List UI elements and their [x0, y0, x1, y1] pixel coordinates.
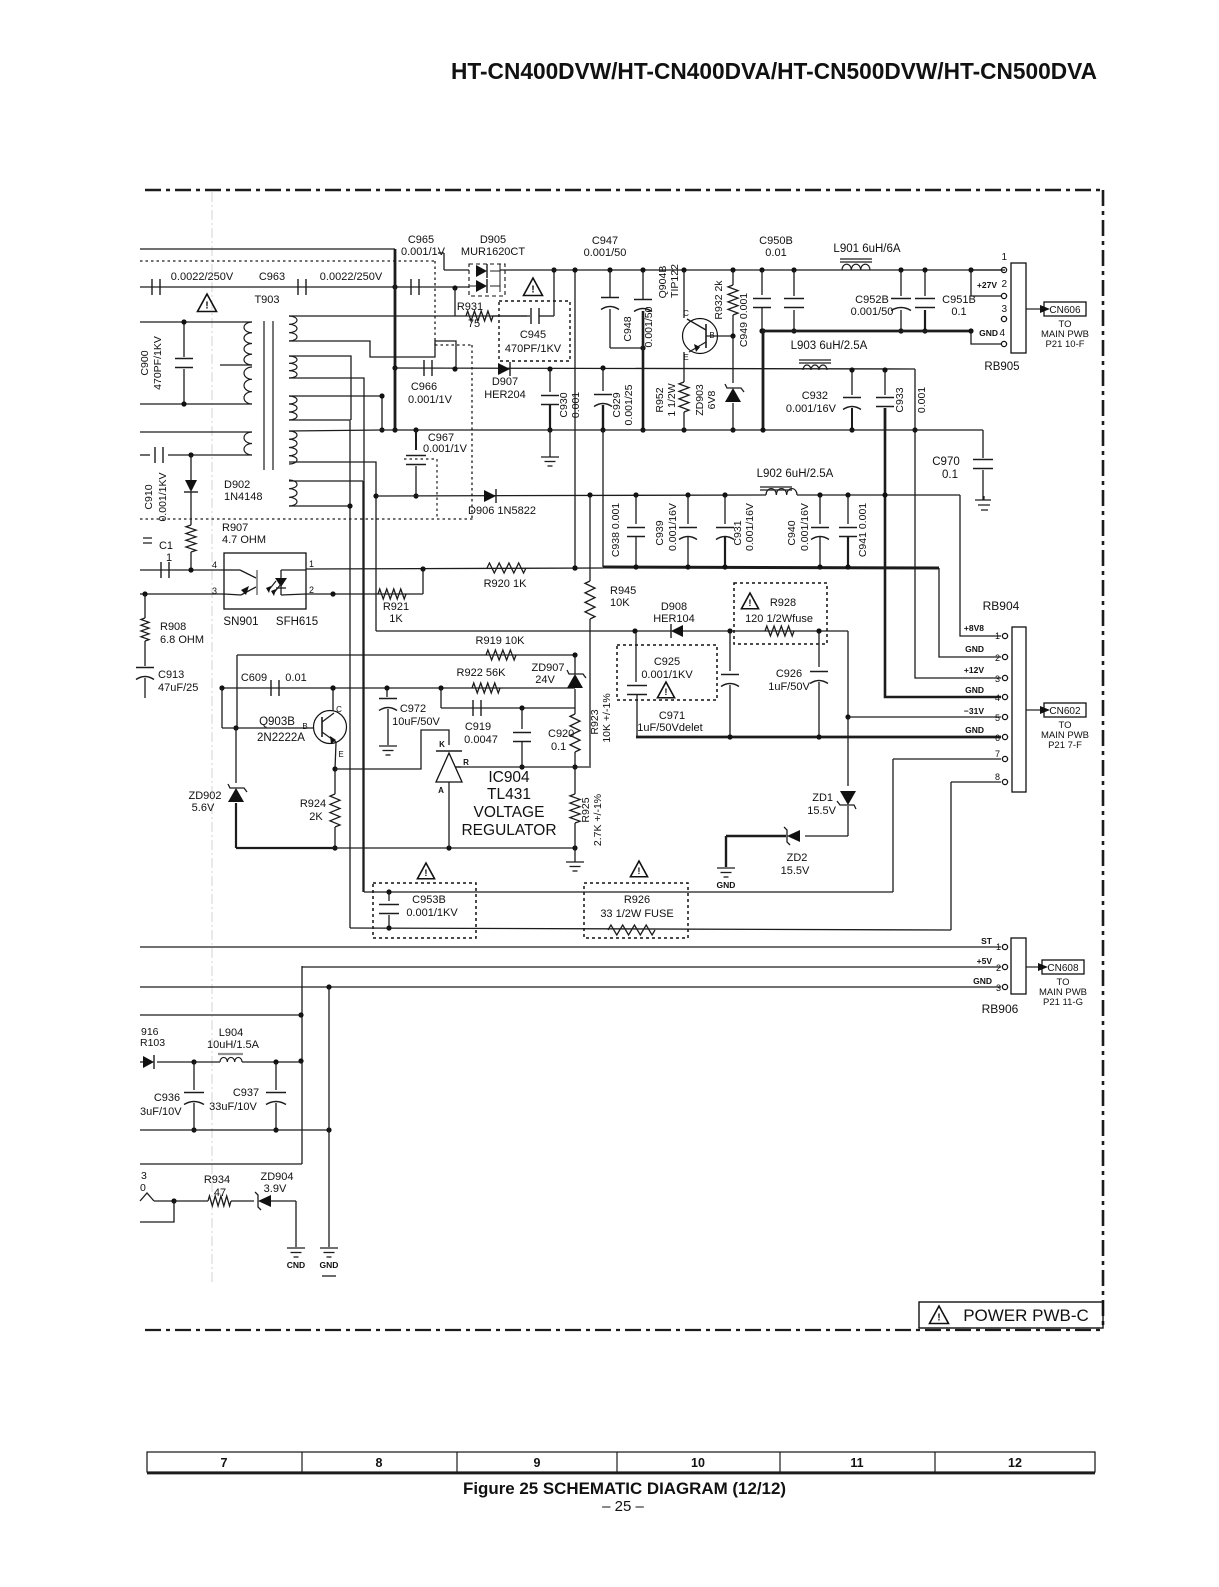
wire C953B top row	[364, 891, 893, 893]
svg-text:9: 9	[534, 1456, 541, 1470]
zener ZD904	[231, 1200, 254, 1202]
svg-text:0.001/50: 0.001/50	[851, 306, 894, 318]
svg-text:GND: GND	[973, 976, 992, 986]
svg-text:E: E	[683, 353, 688, 362]
svg-text:8: 8	[376, 1456, 383, 1470]
svg-text:0.001/16V: 0.001/16V	[667, 503, 679, 551]
svg-text:10K: 10K	[610, 597, 630, 609]
svg-text:E: E	[338, 750, 343, 759]
svg-text:A: A	[438, 786, 444, 795]
warning triangle snubber	[524, 278, 543, 296]
svg-text:!: !	[748, 598, 751, 609]
svg-text:+8V8: +8V8	[964, 623, 984, 633]
svg-text:SFH615: SFH615	[276, 616, 318, 628]
svg-text:B: B	[302, 722, 307, 731]
resistor R932	[730, 267, 735, 272]
svg-text:C948: C948	[622, 316, 634, 341]
svg-text:L902 6uH/2.5A: L902 6uH/2.5A	[757, 468, 834, 480]
ground reg	[566, 861, 584, 863]
svg-text:1: 1	[995, 631, 1000, 641]
svg-text:R926: R926	[624, 894, 650, 906]
wire gnd bus top	[762, 330, 971, 333]
svg-text:T903: T903	[254, 294, 279, 306]
resistor R934	[208, 1196, 231, 1206]
capacitor C971 deleted	[729, 631, 731, 671]
capacitor C945	[499, 301, 570, 361]
transistor Q904B	[681, 267, 686, 272]
svg-text:0.001/1V: 0.001/1V	[408, 394, 453, 406]
svg-text:R952: R952	[654, 387, 666, 412]
svg-text:C933: C933	[894, 387, 906, 412]
svg-text:ZD903: ZD903	[694, 384, 706, 416]
svg-text:C966: C966	[411, 381, 437, 393]
capacitor C925	[635, 631, 637, 682]
svg-text:K: K	[439, 740, 445, 749]
ground C970	[975, 496, 991, 510]
svg-text:!: !	[531, 284, 535, 296]
svg-text:0.001/16V: 0.001/16V	[786, 403, 837, 415]
svg-text:CN606: CN606	[1049, 305, 1081, 316]
resistor R907	[186, 525, 196, 552]
svg-text:C939: C939	[654, 520, 666, 545]
resistor R925	[570, 794, 580, 823]
capacitor C933	[882, 367, 887, 372]
svg-text:3: 3	[141, 1170, 147, 1182]
svg-text:1K: 1K	[389, 613, 403, 625]
diode D905 dual	[469, 264, 505, 296]
svg-text:C938 0.001: C938 0.001	[610, 503, 622, 557]
zener ZD2	[805, 835, 848, 837]
svg-text:HER204: HER204	[484, 389, 526, 401]
svg-text:0.1: 0.1	[951, 306, 966, 318]
svg-text:CN602: CN602	[1049, 706, 1081, 717]
capacitor C965	[410, 279, 412, 295]
svg-text:C929: C929	[611, 392, 623, 417]
svg-text:R945: R945	[610, 585, 636, 597]
wire +5V vertical	[301, 966, 303, 1164]
svg-text:CN608: CN608	[1047, 963, 1079, 974]
svg-text:47uF/25: 47uF/25	[158, 682, 198, 694]
label C965 area wire	[438, 252, 444, 254]
svg-text:C: C	[336, 705, 342, 714]
svg-text:1: 1	[996, 942, 1001, 952]
svg-text:RB906: RB906	[982, 1002, 1019, 1016]
svg-text:4: 4	[212, 560, 217, 570]
svg-text:L901 6uH/6A: L901 6uH/6A	[833, 243, 900, 255]
zener ZD902	[235, 728, 237, 783]
svg-text:120 1/2Wfuse: 120 1/2Wfuse	[745, 613, 813, 625]
svg-text:2N2222A: 2N2222A	[257, 732, 305, 744]
svg-text:1 1/2W: 1 1/2W	[666, 383, 678, 416]
capacitor C920	[521, 708, 523, 729]
transformer secondary winding W1	[289, 316, 297, 341]
svg-text:D906 1N5822: D906 1N5822	[468, 505, 536, 517]
svg-text:Q903B: Q903B	[259, 716, 295, 728]
svg-text:Q904B: Q904B	[657, 266, 669, 299]
svg-text:3: 3	[996, 983, 1001, 993]
svg-text:1N4148: 1N4148	[224, 491, 263, 503]
transformer secondary winding W4	[289, 431, 297, 464]
thick primary bus	[394, 249, 397, 430]
wire R919 row	[237, 654, 575, 656]
capacitor C929	[600, 365, 605, 370]
wire pin3 row	[140, 593, 224, 595]
svg-text:GND: GND	[717, 880, 736, 890]
capacitor C963	[297, 279, 299, 295]
svg-text:7: 7	[995, 749, 1000, 759]
svg-text:HER104: HER104	[653, 613, 695, 625]
svg-text:0.0047: 0.0047	[464, 734, 498, 746]
grid number ruler	[147, 1452, 1095, 1472]
svg-text:GND: GND	[965, 685, 984, 695]
svg-text:0.001: 0.001	[570, 392, 582, 418]
resistor R923	[570, 714, 580, 752]
IC904 TL431	[335, 730, 449, 769]
dashed box C925	[617, 645, 717, 700]
svg-text:+5V: +5V	[977, 956, 993, 966]
connector CN606 callout	[1026, 308, 1040, 310]
svg-text:R908: R908	[160, 621, 186, 633]
capacitor C953B	[388, 892, 390, 901]
capacitor C932	[849, 367, 854, 372]
capacitor C913	[144, 641, 146, 666]
svg-text:R928: R928	[770, 597, 796, 609]
svg-text:C950B: C950B	[759, 235, 793, 247]
svg-text:C949 0.001: C949 0.001	[738, 293, 750, 347]
wire C963 row	[140, 286, 469, 288]
capacitor C937	[275, 1062, 277, 1090]
capacitor filter a	[791, 267, 796, 272]
svg-text:3uF/10V: 3uF/10V	[140, 1106, 182, 1118]
svg-text:C932: C932	[802, 390, 828, 402]
wire D906 L902 rail	[376, 495, 766, 496]
wire pin2 gnd stub	[939, 568, 1001, 657]
wire top rail	[140, 248, 395, 250]
svg-text:R924: R924	[300, 798, 326, 810]
svg-text:C972: C972	[400, 703, 426, 715]
svg-text:ZD907: ZD907	[531, 662, 564, 674]
svg-text:R922 56K: R922 56K	[457, 667, 507, 679]
svg-text:C926: C926	[776, 668, 802, 680]
diode D908	[671, 625, 683, 637]
svg-text:REGULATOR: REGULATOR	[461, 822, 556, 839]
diode D906	[484, 490, 496, 502]
capacitor C948	[640, 267, 645, 272]
svg-text:3: 3	[1001, 304, 1007, 315]
capacitor C609	[270, 680, 272, 696]
svg-text:3.9V: 3.9V	[264, 1183, 287, 1195]
wire C609 row	[222, 687, 575, 689]
resistor R919	[486, 650, 516, 660]
svg-text:C971: C971	[659, 710, 685, 722]
wire gnd bottom thick	[636, 736, 1001, 739]
svg-text:R921: R921	[383, 601, 409, 613]
wire W5 bottom	[289, 505, 350, 507]
capacitor line-filter left	[151, 279, 153, 295]
svg-text:0.1: 0.1	[551, 741, 566, 753]
dashed box R928	[734, 583, 827, 644]
transformer secondary winding W5	[289, 480, 297, 506]
svg-text:0.0022/250V: 0.0022/250V	[320, 271, 383, 283]
wire W4 bottom	[289, 462, 376, 631]
resistor R926 fuse	[608, 925, 655, 935]
svg-text:75: 75	[468, 318, 480, 330]
svg-text:2: 2	[995, 653, 1000, 663]
wire main positive bus	[500, 269, 1005, 271]
resistor R924	[330, 794, 340, 827]
svg-text:5.6V: 5.6V	[192, 802, 215, 814]
svg-text:0.001/50: 0.001/50	[584, 247, 627, 259]
resistor R952	[679, 382, 689, 412]
wire W1 bottom jog	[289, 341, 456, 369]
svg-text:GND: GND	[320, 1260, 339, 1270]
svg-text:−31V: −31V	[964, 706, 984, 716]
optocoupler SN901	[224, 553, 306, 609]
svg-text:L904: L904	[219, 1027, 243, 1039]
svg-text:RB905: RB905	[984, 361, 1019, 373]
capacitor C936	[193, 1062, 195, 1090]
wire W2 top	[289, 356, 351, 420]
svg-text:C945: C945	[520, 329, 546, 341]
svg-text:R907: R907	[222, 522, 248, 534]
wire ST row	[140, 946, 1001, 948]
svg-text:!: !	[205, 300, 209, 312]
svg-text:GND: GND	[979, 328, 998, 338]
svg-text:12: 12	[1008, 1456, 1022, 1470]
capacitor C967	[413, 427, 418, 432]
svg-text:10uF/50V: 10uF/50V	[392, 716, 440, 728]
capacitor C931	[722, 492, 727, 497]
svg-text:0.001/16V: 0.001/16V	[799, 503, 811, 551]
svg-text:6: 6	[995, 733, 1000, 743]
svg-text:ZD904: ZD904	[260, 1171, 293, 1183]
transformer primary lower winding	[244, 432, 252, 455]
ground ZD2	[725, 836, 727, 867]
svg-text:1uF/50V: 1uF/50V	[768, 681, 810, 693]
wire W2 bottom	[289, 378, 364, 892]
wire W5 top	[289, 480, 363, 482]
wire C919 row	[440, 688, 442, 708]
svg-text:0.001/25: 0.001/25	[623, 384, 635, 425]
wire bottom reg rail	[236, 847, 335, 849]
capacitor C910	[140, 454, 150, 456]
svg-text:C1: C1	[159, 540, 173, 552]
wire -31V	[847, 631, 849, 717]
svg-text:R934: R934	[204, 1174, 230, 1186]
svg-text:RB904: RB904	[983, 599, 1020, 613]
wire thick gnd to pin4	[884, 408, 887, 567]
capacitor C951B	[922, 267, 927, 272]
capacitor C941	[845, 492, 850, 497]
diode R916 partial	[140, 1061, 144, 1063]
svg-text:33 1/2W FUSE: 33 1/2W FUSE	[600, 908, 673, 920]
wire mid rail	[289, 430, 382, 431]
ground right GND	[320, 1247, 338, 1249]
zener ZD907	[567, 674, 583, 688]
svg-text:0.001/1V: 0.001/1V	[401, 246, 446, 258]
capacitor C966	[423, 360, 425, 376]
warning triangle C925	[657, 682, 674, 698]
svg-text:L903 6uH/2.5A: L903 6uH/2.5A	[791, 340, 868, 352]
svg-text:0.001/50: 0.001/50	[643, 306, 655, 347]
svg-text:3: 3	[995, 674, 1000, 684]
wire pin1 R920 row	[306, 568, 603, 569]
wire L903 to pin3	[915, 369, 1001, 678]
wire long regulation feed	[574, 270, 576, 568]
page fold crease line	[211, 192, 213, 1282]
svg-text:C947: C947	[592, 235, 618, 247]
svg-text:D908: D908	[661, 601, 687, 613]
svg-text:TIP122: TIP122	[669, 264, 681, 298]
wire W1 top to C945 row	[289, 315, 527, 317]
svg-text:R931: R931	[457, 301, 483, 313]
wire to RB904 pin1	[960, 495, 1001, 636]
wire R933 stub	[140, 1201, 174, 1222]
svg-text:0: 0	[140, 1182, 146, 1194]
POWER PWB-C label box	[919, 1302, 1103, 1328]
svg-text:C609: C609	[241, 672, 267, 684]
transformer secondary winding W2	[289, 356, 297, 378]
svg-text:2: 2	[1001, 279, 1007, 290]
resistor R933 partial	[140, 1193, 154, 1201]
svg-text:C: C	[683, 309, 689, 318]
dashed box C953B	[373, 883, 476, 938]
svg-text:10K +/-1%: 10K +/-1%	[601, 693, 613, 742]
svg-text:C941 0.001: C941 0.001	[857, 503, 869, 557]
capacitor C950B	[760, 328, 765, 333]
resistor R928 fuse	[765, 626, 794, 636]
svg-text:C940: C940	[786, 520, 798, 545]
warning triangle R926	[630, 861, 647, 877]
svg-text:IC904: IC904	[488, 769, 530, 786]
svg-text:7: 7	[221, 1456, 228, 1470]
svg-text:470PF/1KV: 470PF/1KV	[505, 343, 562, 355]
warning triangle R928	[741, 593, 758, 609]
capacitor C952B	[898, 267, 903, 272]
svg-text:C965: C965	[408, 234, 434, 246]
resistor R931	[454, 288, 456, 316]
warning triangle primary	[198, 294, 217, 312]
svg-text:C920: C920	[548, 728, 574, 740]
svg-text:5: 5	[995, 713, 1000, 723]
svg-text:!: !	[937, 1312, 941, 1324]
svg-text:0.1: 0.1	[942, 469, 958, 481]
capacitor C947	[607, 267, 612, 272]
wire D908 row	[376, 630, 848, 632]
svg-text:ZD1: ZD1	[812, 792, 833, 804]
svg-text:C953B: C953B	[412, 894, 446, 906]
svg-text:C900: C900	[139, 350, 151, 375]
svg-text:10: 10	[691, 1456, 705, 1470]
wire ref node	[455, 766, 591, 768]
isolation dotted boundary top	[140, 260, 435, 262]
svg-text:24V: 24V	[535, 674, 555, 686]
connector RB905	[968, 267, 973, 272]
capacitor C938	[633, 492, 638, 497]
svg-text:6V8: 6V8	[706, 391, 718, 410]
svg-text:2: 2	[996, 963, 1001, 973]
wire aux row	[140, 1014, 302, 1016]
svg-text:CND: CND	[287, 1260, 305, 1270]
svg-text:R103: R103	[140, 1037, 165, 1049]
svg-text:C931: C931	[732, 520, 744, 545]
svg-text:1: 1	[309, 559, 314, 569]
warning triangle C953B	[417, 863, 434, 879]
svg-text:R919 10K: R919 10K	[476, 635, 526, 647]
connector RB906	[1011, 938, 1026, 994]
svg-text:33uF/10V: 33uF/10V	[209, 1101, 257, 1113]
svg-text:ZD902: ZD902	[188, 790, 221, 802]
dashed box R926	[584, 883, 688, 938]
capacitor C972	[386, 688, 388, 697]
svg-text:C930: C930	[558, 392, 570, 417]
diode D902	[190, 455, 192, 480]
svg-text:R925: R925	[580, 797, 592, 822]
diode D907	[452, 366, 457, 371]
svg-text:11: 11	[850, 1456, 863, 1470]
wire pin8 route	[951, 781, 1001, 783]
svg-text:C937: C937	[233, 1087, 259, 1099]
wire ZD904 gnd drop	[295, 1201, 297, 1247]
svg-text:D907: D907	[492, 376, 518, 388]
svg-text:R923: R923	[589, 709, 601, 734]
zener ZD903	[732, 336, 734, 383]
svg-text:R920 1K: R920 1K	[484, 578, 527, 590]
capacitor C940	[817, 492, 822, 497]
schematic dash-dot border	[145, 189, 1103, 192]
svg-text:6.8 OHM: 6.8 OHM	[160, 634, 204, 646]
resistor R922	[472, 683, 500, 693]
svg-text:C919: C919	[465, 721, 491, 733]
wire gnd drop	[328, 987, 330, 1247]
svg-text:!: !	[664, 687, 667, 698]
svg-text:C952B: C952B	[855, 294, 889, 306]
svg-text:0.001/16V: 0.001/16V	[744, 503, 756, 551]
svg-text:P21 10-F: P21 10-F	[1045, 339, 1084, 350]
svg-text:0.001/1KV: 0.001/1KV	[157, 472, 169, 521]
wire R926 bottom row	[350, 928, 951, 930]
ground left GND	[287, 1247, 305, 1249]
wire D907 L903 rail	[395, 368, 915, 369]
svg-text:0.0022/250V: 0.0022/250V	[171, 271, 234, 283]
svg-text:0.001/1KV: 0.001/1KV	[406, 907, 458, 919]
transistor Q903B	[233, 725, 238, 730]
svg-text:GND: GND	[965, 725, 984, 735]
svg-text:2K: 2K	[309, 811, 323, 823]
svg-text:ZD2: ZD2	[787, 852, 808, 864]
svg-text:15.5V: 15.5V	[807, 805, 836, 817]
capacitor C926	[818, 631, 820, 667]
svg-text:1: 1	[1001, 252, 1007, 263]
svg-text:15.5V: 15.5V	[781, 865, 810, 877]
capacitor C930	[547, 366, 552, 371]
svg-text:0.01: 0.01	[285, 672, 306, 684]
transformer T903	[263, 321, 265, 470]
svg-text:0.01: 0.01	[765, 247, 786, 259]
svg-text:C936: C936	[154, 1092, 180, 1104]
svg-text:C970: C970	[932, 456, 960, 468]
svg-text:C910: C910	[143, 484, 155, 509]
transformer secondary winding W3	[289, 396, 297, 420]
capacitor C939	[685, 492, 690, 497]
svg-text:TL431: TL431	[487, 786, 531, 803]
svg-text:!: !	[424, 868, 427, 879]
dashed box C967 area	[436, 459, 438, 519]
svg-text:0.001: 0.001	[916, 387, 928, 413]
wire bank bottom thick	[603, 567, 939, 568]
isolation dotted boundary middle	[140, 518, 473, 520]
thick vertical from gnd bus	[762, 331, 765, 430]
